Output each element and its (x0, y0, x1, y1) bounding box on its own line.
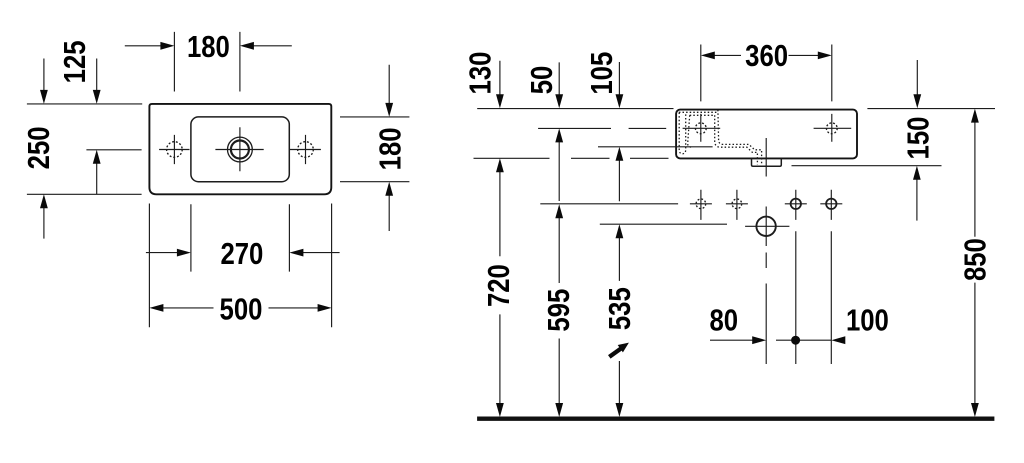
svg-text:180: 180 (187, 30, 230, 65)
svg-text:500: 500 (220, 292, 263, 327)
svg-text:270: 270 (220, 237, 263, 272)
svg-text:105: 105 (585, 52, 620, 95)
svg-text:250: 250 (22, 126, 57, 169)
svg-text:100: 100 (846, 303, 889, 338)
svg-text:595: 595 (542, 289, 577, 332)
svg-text:50: 50 (525, 66, 560, 95)
svg-text:535: 535 (603, 287, 638, 330)
svg-text:80: 80 (709, 303, 738, 338)
svg-text:125: 125 (58, 40, 93, 83)
svg-text:360: 360 (745, 39, 788, 74)
svg-text:150: 150 (901, 117, 936, 160)
svg-text:180: 180 (373, 127, 408, 170)
svg-text:130: 130 (463, 52, 498, 95)
svg-text:720: 720 (482, 264, 517, 307)
svg-text:850: 850 (958, 238, 993, 281)
